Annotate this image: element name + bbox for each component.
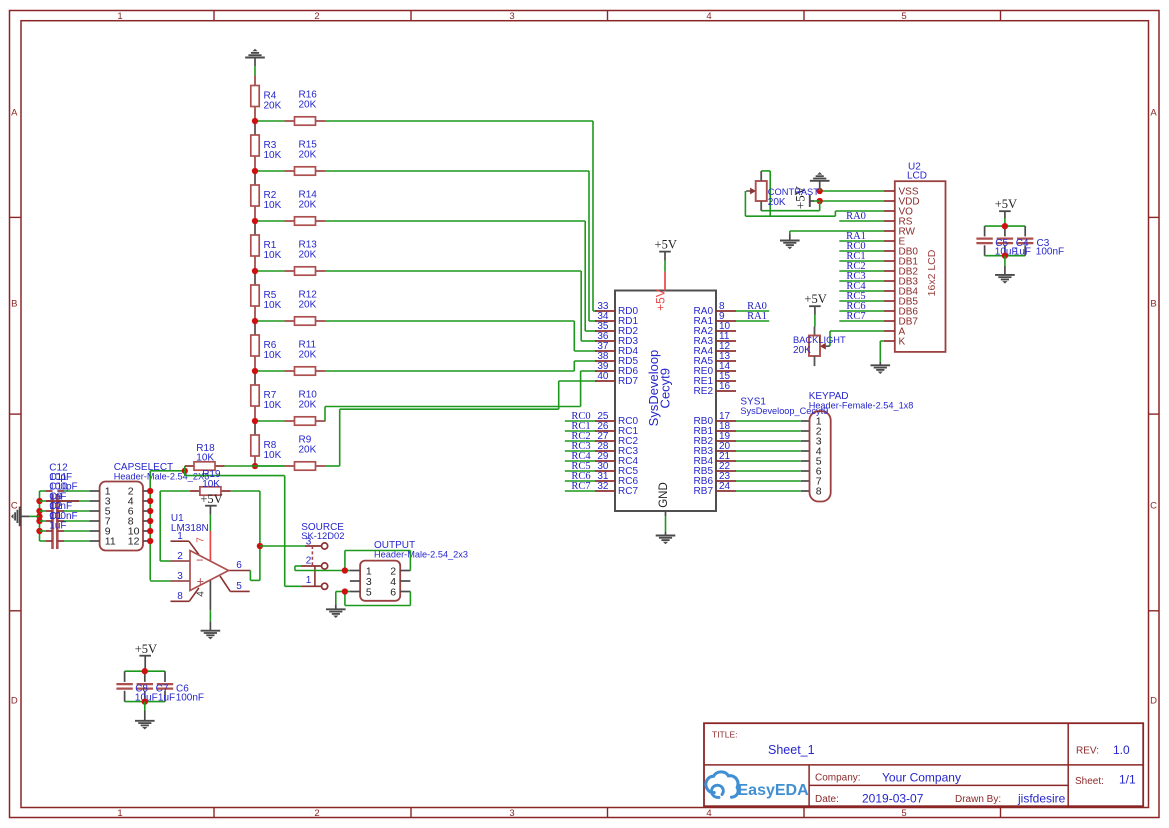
LCD U2 xyxy=(884,161,946,352)
wire RD1 net xyxy=(326,171,598,321)
wire RB1 to keypad xyxy=(736,430,810,432)
junction xyxy=(36,528,42,534)
power +5V MCU xyxy=(655,237,677,260)
resistor R19 xyxy=(160,469,231,495)
wire xyxy=(1004,256,1006,275)
svg-text:5: 5 xyxy=(901,808,906,819)
wire contrast bottom to VDD xyxy=(761,201,820,211)
connector OUTPUT header xyxy=(350,540,468,601)
svg-text:16x2 LCD: 16x2 LCD xyxy=(926,249,938,296)
svg-text:10K: 10K xyxy=(264,400,282,411)
svg-text:RD7: RD7 xyxy=(618,376,638,387)
pin 36 RD3 xyxy=(595,331,638,347)
resistor R2 xyxy=(251,171,282,221)
svg-text:EasyEDA: EasyEDA xyxy=(738,782,810,799)
potentiometer BACKLIGHT xyxy=(793,327,846,367)
wire E stub xyxy=(839,240,884,242)
wire RC3 stub xyxy=(565,450,595,452)
wire RC1 stub xyxy=(565,430,595,432)
svg-text:40: 40 xyxy=(597,371,609,382)
wire RD0 net xyxy=(326,121,598,311)
junction xyxy=(252,368,258,374)
wire DB4 stub xyxy=(839,290,884,292)
ground K xyxy=(871,365,891,374)
pin 5 xyxy=(220,576,250,592)
svg-text:3: 3 xyxy=(306,536,312,547)
svg-text:K: K xyxy=(899,337,906,348)
svg-text:1/1: 1/1 xyxy=(1119,773,1136,787)
pin 20 RB3 xyxy=(694,441,736,457)
svg-text:+5V: +5V xyxy=(200,492,222,506)
svg-text:3: 3 xyxy=(177,571,183,582)
potentiometer CONTRAST xyxy=(746,171,819,211)
ground xyxy=(245,49,265,66)
svg-text:RC7: RC7 xyxy=(846,311,865,322)
wire RA0 stub xyxy=(736,310,769,312)
svg-text:RC7: RC7 xyxy=(571,481,590,492)
svg-text:2: 2 xyxy=(306,555,312,566)
wire xyxy=(664,261,666,272)
wire DB5 stub xyxy=(839,300,884,302)
svg-text:20K: 20K xyxy=(299,349,317,360)
svg-text:10K: 10K xyxy=(264,350,282,361)
svg-text:RB7: RB7 xyxy=(694,486,714,497)
svg-text:4: 4 xyxy=(706,11,711,22)
pin 23 RB6 xyxy=(694,471,736,487)
wire RC5 stub xyxy=(565,470,595,472)
svg-text:+5V: +5V xyxy=(655,237,677,251)
capacitor C8 C7 C6 xyxy=(116,671,204,703)
pin 39 RD6 xyxy=(595,361,638,377)
svg-text:RA0: RA0 xyxy=(846,211,866,222)
ground cap bank xyxy=(11,507,20,527)
connector SYS1 keypad xyxy=(740,391,913,501)
wire GND MCU xyxy=(665,511,667,536)
svg-text:D: D xyxy=(1150,696,1157,707)
svg-text:RE2: RE2 xyxy=(694,386,714,397)
svg-text:4: 4 xyxy=(196,591,207,597)
wire RB3 to keypad xyxy=(736,450,810,452)
pin 14 RE0 xyxy=(694,361,736,377)
junction xyxy=(252,463,258,469)
switch SOURCE SK-12D02 xyxy=(301,522,344,590)
MCU name text xyxy=(646,350,673,427)
svg-text:Sheet_1: Sheet_1 xyxy=(768,743,815,757)
wire RD4 net xyxy=(326,321,598,351)
pin 2 xyxy=(171,551,191,562)
svg-text:16: 16 xyxy=(719,381,731,392)
wire xyxy=(1004,219,1006,227)
wire RD7 net xyxy=(326,381,598,466)
MCU SysDeveloop Cecyt9 xyxy=(615,291,716,512)
svg-text:5: 5 xyxy=(366,586,372,598)
wire DB1 stub xyxy=(839,260,884,262)
pin 8 xyxy=(171,588,199,602)
wire DB7 stub xyxy=(839,320,884,322)
wire VDD xyxy=(820,200,884,202)
wire xyxy=(144,669,146,671)
svg-text:1: 1 xyxy=(117,11,122,22)
pin 25 RC0 xyxy=(595,411,638,427)
wire contrast top loop xyxy=(761,171,770,216)
svg-text:1uF: 1uF xyxy=(158,692,175,703)
pin 18 RB1 xyxy=(694,421,736,437)
svg-text:20K: 20K xyxy=(299,249,317,260)
svg-text:10K: 10K xyxy=(202,479,220,490)
svg-text:24: 24 xyxy=(719,481,731,492)
svg-text:BACKLIGHT: BACKLIGHT xyxy=(793,335,846,345)
pin 9 RA1 xyxy=(694,311,736,327)
title block xyxy=(704,723,1143,806)
wire RD5 net xyxy=(326,361,598,371)
svg-text:10K: 10K xyxy=(264,450,282,461)
junction xyxy=(147,518,153,524)
svg-text:2: 2 xyxy=(314,11,319,22)
svg-text:Drawn By:: Drawn By: xyxy=(955,794,1001,805)
junction xyxy=(1002,223,1008,229)
wire RB4 to keypad xyxy=(736,460,810,462)
wire RS stub xyxy=(839,220,884,222)
wire capselect right bus xyxy=(150,471,185,581)
wire RC4 stub xyxy=(565,460,595,462)
svg-text:20K: 20K xyxy=(299,444,317,455)
capacitor C5 C4 C3 xyxy=(976,226,1064,257)
pin 30 RC5 xyxy=(595,461,638,477)
resistor R5 xyxy=(251,271,282,321)
wire switch pin2 to output xyxy=(295,566,345,571)
svg-text:B: B xyxy=(1150,299,1156,310)
svg-text:5: 5 xyxy=(236,581,242,592)
wire RC2 stub xyxy=(565,440,595,442)
ground RW xyxy=(780,241,800,250)
junction xyxy=(252,268,258,274)
svg-text:20K: 20K xyxy=(299,299,317,310)
pin 19 RB2 xyxy=(694,431,736,447)
resistor R18 xyxy=(185,443,225,471)
svg-text:RA1: RA1 xyxy=(747,311,767,322)
svg-text:A: A xyxy=(1150,108,1157,119)
pin 12 RA4 xyxy=(694,341,736,357)
svg-text:−: − xyxy=(196,553,204,568)
svg-text:LCD: LCD xyxy=(907,171,927,182)
power +5V C6 group xyxy=(135,642,157,669)
wire R19 feedback xyxy=(160,491,260,580)
svg-text:Header-Female-2.54_1x8: Header-Female-2.54_1x8 xyxy=(809,401,914,411)
svg-text:CONTRAST: CONTRAST xyxy=(768,187,819,197)
svg-text:A: A xyxy=(11,108,18,119)
pin 31 RC6 xyxy=(595,471,638,487)
svg-text:8: 8 xyxy=(177,591,183,602)
svg-text:1: 1 xyxy=(117,808,122,819)
wire RB0 to keypad xyxy=(736,420,810,422)
junction xyxy=(342,588,348,594)
wire RC7 stub xyxy=(565,490,595,492)
pin 35 RD2 xyxy=(595,321,638,337)
svg-text:100nF: 100nF xyxy=(176,692,204,703)
svg-text:GND: GND xyxy=(658,482,670,508)
ground opamp xyxy=(201,631,221,640)
pin 16 RE2 xyxy=(694,381,736,397)
pin 11 RA3 xyxy=(694,331,736,347)
svg-text:5: 5 xyxy=(901,11,906,22)
power +5V backlight xyxy=(804,292,826,315)
svg-text:100nF: 100nF xyxy=(1036,246,1064,257)
pin 21 RB4 xyxy=(694,451,736,467)
svg-text:jisfdesire: jisfdesire xyxy=(1017,792,1066,806)
svg-text:10K: 10K xyxy=(264,150,282,161)
svg-text:Cecyt9: Cecyt9 xyxy=(658,368,673,408)
junction xyxy=(147,488,153,494)
pin 37 RD4 xyxy=(595,341,638,357)
svg-text:TITLE:: TITLE: xyxy=(712,730,738,740)
pin 28 RC3 xyxy=(595,441,638,457)
svg-text:+: + xyxy=(197,574,205,589)
pin 8 RA0 xyxy=(694,301,736,317)
wire xyxy=(144,702,146,721)
resistor R15 xyxy=(258,139,326,175)
svg-text:C: C xyxy=(1150,501,1157,512)
ground C3 group xyxy=(995,275,1015,284)
svg-text:D: D xyxy=(11,696,18,707)
svg-text:+5V: +5V xyxy=(135,642,157,656)
svg-text:REV:: REV: xyxy=(1076,746,1099,757)
resistor R8 xyxy=(251,421,282,466)
pin 34 RD1 xyxy=(595,311,638,327)
pin 15 RE1 xyxy=(694,371,736,387)
pin 33 RD0 xyxy=(595,301,638,317)
svg-text:20K: 20K xyxy=(264,101,282,112)
junction xyxy=(36,513,42,519)
power +5V opamp xyxy=(200,492,222,515)
resistor R16 xyxy=(258,89,326,125)
wire R18 to switch pin1 xyxy=(185,471,285,587)
pin 10 RA2 xyxy=(694,321,736,337)
junction xyxy=(36,508,42,514)
wire RA1 stub xyxy=(736,320,769,322)
wire A to backlight xyxy=(828,331,884,346)
ground output xyxy=(326,609,346,618)
wire RD2 net xyxy=(326,221,598,331)
svg-text:1uF: 1uF xyxy=(49,521,66,532)
wire output pin5 ground xyxy=(336,592,350,610)
wire RC0 stub xyxy=(565,420,595,422)
wire pin3 capselect xyxy=(150,580,170,582)
svg-text:Company:: Company: xyxy=(815,773,861,784)
wire switch pin1 xyxy=(285,585,302,587)
pin 7 V+ xyxy=(196,531,211,562)
wire VSS xyxy=(820,190,884,192)
wire xyxy=(814,315,816,327)
svg-text:2: 2 xyxy=(177,551,183,562)
junction xyxy=(182,468,188,474)
wire VDD red xyxy=(664,272,666,291)
wire RB7 to keypad xyxy=(736,490,810,492)
svg-text:+5V: +5V xyxy=(804,292,826,306)
svg-text:32: 32 xyxy=(597,481,609,492)
resistor R3 xyxy=(251,121,282,171)
svg-text:2019-03-07: 2019-03-07 xyxy=(862,792,924,806)
pin 27 RC2 xyxy=(595,431,638,447)
svg-text:+5V: +5V xyxy=(995,197,1017,211)
svg-text:10K: 10K xyxy=(264,300,282,311)
pin 6 output xyxy=(229,560,250,571)
svg-text:B: B xyxy=(11,299,17,310)
svg-text:Your Company: Your Company xyxy=(882,771,961,785)
svg-text:4: 4 xyxy=(706,808,711,819)
junction VSS xyxy=(817,188,823,194)
wire capselect left bus xyxy=(39,491,41,541)
wire output pin5-pin6 loop xyxy=(345,592,411,606)
ground MCU xyxy=(656,536,676,545)
resistor R12 xyxy=(258,289,326,325)
junction xyxy=(147,498,153,504)
ground VSS xyxy=(810,172,830,191)
junction xyxy=(142,698,148,704)
junction xyxy=(36,498,42,504)
wire xyxy=(254,66,256,76)
junction xyxy=(252,318,258,324)
resistor R7 xyxy=(251,371,282,421)
wire K to ground xyxy=(880,341,884,365)
junction xyxy=(252,118,258,124)
wire DB2 stub xyxy=(839,270,884,272)
junction xyxy=(147,538,153,544)
wire RB5 to keypad xyxy=(736,470,810,472)
resistor R10 xyxy=(258,389,326,425)
connector CAPSELECT header xyxy=(89,462,209,551)
pin 3 xyxy=(171,571,191,582)
pin 1 xyxy=(171,531,199,555)
junction VDD xyxy=(817,198,823,204)
svg-text:3: 3 xyxy=(509,808,514,819)
op-amp U1 LM318N xyxy=(171,513,229,591)
wire RC6 stub xyxy=(565,480,595,482)
junction xyxy=(252,168,258,174)
junction xyxy=(342,567,348,573)
pin 40 RD7 xyxy=(595,371,638,387)
pin 17 RB0 xyxy=(694,411,736,427)
wire opamp output loop xyxy=(249,571,260,581)
svg-text:RC7: RC7 xyxy=(618,486,638,497)
svg-text:2: 2 xyxy=(314,808,319,819)
pin 29 RC4 xyxy=(595,451,638,467)
wire switch pin3 xyxy=(260,545,305,547)
power +5V C3 group xyxy=(995,197,1017,219)
resistor R11 xyxy=(258,339,326,375)
svg-text:20K: 20K xyxy=(299,399,317,410)
wire RD3 net xyxy=(326,271,598,341)
svg-text:20K: 20K xyxy=(793,345,811,356)
pin 13 RA5 xyxy=(694,351,736,367)
resistor R4 xyxy=(251,76,282,122)
svg-text:10K: 10K xyxy=(264,200,282,211)
svg-text:1uF: 1uF xyxy=(1014,246,1031,257)
pin 26 RC1 xyxy=(595,421,638,437)
resistor R14 xyxy=(258,189,326,225)
svg-text:Date:: Date: xyxy=(815,794,839,805)
resistor R13 xyxy=(258,239,326,275)
resistor R9 xyxy=(258,434,326,470)
wire contrast wiper to VO xyxy=(745,191,884,216)
junction xyxy=(142,668,148,674)
power +5V VDD rotated xyxy=(792,185,819,209)
junction xyxy=(147,508,153,514)
wire DB6 stub xyxy=(839,310,884,312)
resistor R6 xyxy=(251,321,282,371)
junction xyxy=(36,518,42,524)
svg-text:LM318N: LM318N xyxy=(171,523,209,534)
wire RB6 to keypad xyxy=(736,480,810,482)
svg-text:8: 8 xyxy=(816,486,822,498)
svg-text:+5V: +5V xyxy=(654,289,668,311)
EasyEDA logo xyxy=(706,772,809,799)
svg-text:10K: 10K xyxy=(264,250,282,261)
pin 38 RD5 xyxy=(595,351,638,367)
svg-text:10K: 10K xyxy=(196,453,214,464)
svg-text:20K: 20K xyxy=(768,197,786,208)
wire DB3 stub xyxy=(839,280,884,282)
svg-text:Sheet:: Sheet: xyxy=(1075,776,1104,787)
wire output pin1-pin2 loop xyxy=(345,551,411,571)
wire RW to ground xyxy=(790,231,884,241)
junction xyxy=(147,528,153,534)
svg-text:20K: 20K xyxy=(299,149,317,160)
svg-text:11: 11 xyxy=(105,536,116,548)
pin 24 RB7 xyxy=(694,481,736,497)
wire DB0 stub xyxy=(839,250,884,252)
ground C6 group xyxy=(135,721,155,730)
svg-text:20K: 20K xyxy=(299,199,317,210)
wire xyxy=(209,515,211,531)
wire RD6 net xyxy=(325,371,597,421)
junction xyxy=(252,418,258,424)
svg-text:1: 1 xyxy=(306,575,312,586)
svg-text:6: 6 xyxy=(390,586,396,598)
wire ground stub xyxy=(20,515,40,517)
junction xyxy=(1002,253,1008,259)
pin 32 RC7 xyxy=(595,481,638,497)
pin 22 RB5 xyxy=(694,461,736,477)
wire xyxy=(225,465,285,467)
wire RB2 to keypad xyxy=(736,440,810,442)
pin 4 V- xyxy=(196,580,211,631)
junction xyxy=(252,218,258,224)
resistor R1 xyxy=(251,221,282,271)
svg-text:20K: 20K xyxy=(299,99,317,110)
svg-text:1.0: 1.0 xyxy=(1113,743,1130,757)
svg-text:6: 6 xyxy=(236,560,242,571)
svg-text:12: 12 xyxy=(128,536,140,548)
junction xyxy=(257,543,263,549)
capacitor bank C12-C1 xyxy=(40,462,90,549)
svg-text:3: 3 xyxy=(509,11,514,22)
svg-text:7: 7 xyxy=(196,537,207,543)
